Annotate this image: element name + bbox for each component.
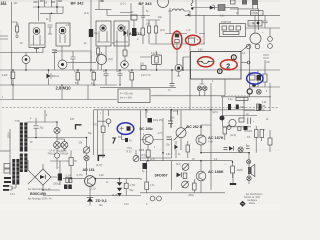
svg-text:(0,15): (0,15) [112, 195, 118, 197]
red ellipse R1 [172, 31, 182, 49]
small text boxes right [251, 11, 264, 16]
capacitor 10u dark [89, 29, 93, 37]
fuse chain [56, 122, 58, 127]
resistor cluster mid [148, 26, 151, 33]
transistor below box [200, 79, 205, 84]
svg-text:⊥: ⊥ [224, 163, 226, 166]
cap near x172 [170, 84, 175, 86]
connector pair circled R1 [175, 34, 179, 38]
fuse circles below [150, 196, 155, 201]
cap [52, 50, 57, 53]
IF can box 3 [96, 21, 111, 46]
svg-text:(0,3): (0,3) [84, 13, 89, 15]
mains plug [4, 177, 11, 179]
junction dots [12, 69, 14, 71]
resistor 1ohm [231, 166, 235, 173]
svg-text:4,7V: 4,7V [158, 133, 163, 135]
blue ellipse B2 [117, 123, 134, 135]
hatched rect [218, 5, 225, 11]
svg-text:6V: 6V [112, 43, 115, 45]
svg-text:ZD 9,1: ZD 9,1 [96, 199, 107, 203]
small cluster [229, 119, 236, 126]
svg-text:BA124: BA124 [52, 75, 60, 78]
svg-text:K 4,7k: K 4,7k [151, 53, 158, 55]
svg-text:24V: 24V [70, 119, 75, 121]
svg-text:↓: ↓ [190, 142, 191, 145]
transistor T1 [143, 134, 153, 144]
svg-text:20µ: 20µ [40, 128, 45, 130]
svg-text:+: + [197, 38, 199, 42]
comp under B2 [127, 126, 131, 131]
cap dark small [125, 138, 128, 142]
ground right [232, 174, 234, 184]
svg-text:F: F [219, 70, 221, 74]
small comps between [186, 145, 190, 152]
wire y137 [27, 137, 87, 139]
svg-text:LP M: LP M [50, 151, 55, 153]
badge D [220, 116, 225, 121]
svg-text:. . . . . . . . .: . . . . . . . . . [155, 94, 166, 96]
svg-text:bei Gleichstrom-: bei Gleichstrom- [246, 193, 263, 196]
bus y95.8 [151, 79, 225, 96]
svg-text:(15Ω): (15Ω) [188, 195, 194, 197]
svg-text:470µ: 470µ [173, 111, 179, 113]
extra can below box4 [121, 61, 129, 69]
svg-text:(6,2V): (6,2V) [96, 165, 102, 167]
annotation box [191, 52, 242, 80]
svg-text:(1,75): (1,75) [77, 175, 83, 177]
pot with arrow [83, 147, 89, 153]
svg-text:50µ: 50µ [130, 190, 135, 192]
svg-text:2,1Ω: 2,1Ω [91, 189, 96, 191]
transistor T3 [196, 135, 206, 145]
top-left cluster wires [33, 0, 64, 21]
svg-text:47n 125: 47n 125 [257, 106, 266, 108]
small circles right edge [268, 37, 273, 42]
resistor under T1 [146, 150, 150, 157]
zener ZD 9,1 [87, 196, 93, 198]
resistor right col [257, 104, 261, 111]
svg-text:12V: 12V [14, 3, 19, 5]
svg-text:(11,2): (11,2) [230, 135, 236, 137]
svg-text:0,4W: 0,4W [2, 75, 8, 77]
resistor on left bus [16, 26, 19, 32]
cap dark bars [236, 105, 239, 110]
diamond note [240, 201, 246, 207]
svg-text:(0,9): (0,9) [160, 30, 165, 32]
svg-text:1: 1 [233, 56, 235, 60]
bus y62 [54, 51, 96, 62]
diode AA112 [124, 30, 128, 36]
resistors below boxes [97, 48, 100, 54]
svg-text:1,7W: 1,7W [130, 185, 136, 187]
svg-text:LP B: LP B [62, 151, 67, 153]
svg-text:AC 188K: AC 188K [208, 170, 224, 174]
fuse circle [106, 119, 111, 124]
bus y15.4 [185, 14, 280, 16]
svg-text:7W0,6A: 7W0,6A [60, 153, 69, 156]
comp under blue ellipse B1 [257, 70, 259, 87]
svg-text:M: M [140, 179, 142, 181]
bus y152.7 [201, 152, 250, 154]
top edge comps right [231, 0, 236, 4]
fuse above AD161 [84, 155, 89, 160]
svg-text:BC 108c: BC 108c [140, 127, 153, 131]
svg-text:betrieb ca. 10%: betrieb ca. 10% [244, 196, 260, 199]
svg-text:7W0,1A: 7W0,1A [48, 153, 57, 156]
left small comps [4, 164, 10, 169]
diode chain right of AD161 [119, 179, 121, 182]
svg-text:0,1µ: 0,1µ [228, 99, 233, 101]
transistor circle top right [250, 33, 261, 44]
cap right of T1 [167, 137, 172, 140]
wire from box right [241, 62, 247, 64]
top right diode [193, 7, 218, 9]
resistor right in box [193, 183, 197, 190]
IF can box 2 [56, 23, 70, 46]
filler wires between IF boxes [48, 13, 53, 34]
wire below R1 [176, 48, 178, 64]
long vertical x249 [249, 44, 265, 97]
svg-text:Werte: Werte [249, 202, 256, 205]
comps cut at top edge [34, 1, 63, 2]
svg-text:1/10 7,7k: 1/10 7,7k [141, 75, 151, 77]
svg-text:(0,2): (0,2) [176, 164, 181, 166]
can 2 [58, 60, 67, 69]
cap right [245, 15, 280, 28]
wire y161 [50, 160, 69, 162]
small marks on y99 [13, 85, 88, 100]
svg-text:S 12: S 12 [10, 194, 15, 196]
pot lower [133, 156, 139, 162]
filler below IF box 4 [117, 40, 125, 70]
bottom-left bus [43, 195, 141, 197]
wires mid [150, 0, 205, 52]
svg-text:Bei Netzspg. 220V~ 4h: Bei Netzspg. 220V~ 4h [28, 198, 52, 201]
row right of AC187K [227, 126, 231, 130]
svg-text:R 20: R 20 [127, 152, 133, 154]
dark caps right of bus [228, 104, 231, 110]
switch inside box [197, 62, 214, 64]
svg-text:AD 161: AD 161 [83, 168, 95, 172]
resistor on bus left of can [141, 66, 146, 70]
svg-text:BF 343: BF 343 [139, 1, 153, 6]
svg-text:100µ: 100µ [240, 107, 246, 109]
svg-text:0,5/6: 0,5/6 [139, 150, 145, 152]
svg-text:141: 141 [1, 1, 7, 5]
wires [141, 110, 178, 158]
comps above speaker [224, 148, 228, 150]
coil horizontal [236, 97, 248, 100]
bridge rectifier B30C450 [35, 169, 51, 185]
dark elco [148, 118, 153, 123]
svg-text:2,8 M10: 2,8 M10 [56, 86, 72, 91]
svg-text:(1-1²): (1-1²) [120, 3, 126, 6]
transistor T2 with pencil arrow [176, 128, 186, 138]
wire y57 [140, 57, 183, 70]
resistor left mid [11, 72, 15, 79]
wire vertical x91 [90, 0, 92, 70]
svg-text:(2): (2) [96, 55, 99, 57]
red ellipse R3 [198, 57, 214, 67]
svg-text:niedrigere: niedrigere [247, 199, 258, 202]
solid bus below separator [94, 109, 256, 111]
svg-text:SFD007: SFD007 [155, 174, 168, 178]
svg-text:(0,6): (0,6) [108, 59, 113, 61]
left column of box [143, 163, 148, 169]
svg-text:(1,3V): (1,3V) [65, 175, 71, 177]
svg-text:bei k = 10%: bei k = 10% [120, 97, 132, 99]
bus y85 left [0, 84, 117, 86]
transistor T4 [196, 171, 206, 181]
wires right mid [244, 130, 252, 132]
svg-text:87MB: 87MB [252, 13, 258, 15]
svg-text:P = 750 mW: P = 750 mW [120, 93, 133, 95]
transistor can above row [97, 55, 107, 65]
wire left vertical bus [11, 2, 13, 85]
box with rects [220, 24, 246, 37]
coil arcs [172, 9, 184, 11]
left comps of AD161 [69, 158, 73, 166]
svg-text:(9): (9) [252, 23, 255, 25]
diode left row [47, 74, 51, 79]
cap 1500u [58, 174, 62, 181]
bus y52 [0, 47, 43, 53]
svg-text:S 10: S 10 [124, 204, 129, 206]
filler left of BF342 column [71, 51, 76, 70]
wires above boxes [95, 0, 150, 20]
svg-text:o. M: o. M [186, 30, 191, 32]
svg-text:Tr 50: Tr 50 [15, 120, 21, 123]
badge 1 [231, 55, 236, 60]
resistor row mid-left between buses [76, 73, 80, 81]
boxed resistor mid [152, 55, 162, 65]
top right squiggle resistor [191, 0, 193, 6]
dark dot right [252, 83, 256, 87]
resistor [101, 126, 105, 133]
badge F [218, 69, 223, 74]
svg-text:100µ 25V: 100µ 25V [153, 120, 163, 122]
dashed separator [2, 107, 278, 109]
svg-text:(12V): (12V) [212, 112, 218, 114]
extra resistor right column [268, 138, 272, 145]
red ellipse R4 [220, 60, 237, 70]
jumper circled R2 [188, 38, 196, 43]
trimmer 2 [182, 181, 189, 188]
svg-text:7734: 7734 [127, 148, 133, 150]
svg-text:(1,5): (1,5) [150, 159, 155, 161]
IF can box 1 [29, 23, 45, 48]
svg-text:(1,5): (1,5) [141, 155, 146, 157]
svg-text:AC 187K: AC 187K [208, 136, 224, 140]
rect between trimmers [183, 173, 187, 179]
IF can box 4 [114, 21, 129, 46]
svg-text:0,5A: 0,5A [198, 49, 203, 52]
can left [22, 56, 30, 64]
paper background [0, 0, 280, 210]
caps x143 [141, 5, 145, 28]
wire y87 right of mid [100, 52, 190, 110]
badge 5 [247, 89, 252, 94]
trimmer 1 [182, 164, 189, 171]
cap x170 upper [168, 121, 173, 124]
main bus y70 [0, 69, 280, 71]
svg-text:6,2K: 6,2K [99, 175, 104, 177]
svg-text:BC 262 D: BC 262 D [187, 125, 203, 129]
svg-text:50µ: 50µ [88, 133, 93, 135]
comps right column [263, 74, 267, 82]
vertical pair [94, 110, 98, 155]
svg-text:BF 342: BF 342 [71, 0, 85, 5]
wire left edge stubs [0, 36, 8, 39]
speaker [247, 160, 251, 164]
P box [118, 89, 150, 103]
svg-text:J: J [2, 97, 3, 99]
diagonal at box corner [241, 44, 250, 52]
svg-text:5V: 5V [75, 83, 78, 85]
cap 20u [34, 126, 39, 138]
can below R1 [175, 64, 182, 71]
svg-text:bei Netzbetrieb ca. 4h: bei Netzbetrieb ca. 4h [28, 188, 51, 191]
svg-text:4Ω/52: 4Ω/52 [237, 170, 244, 172]
blue ellipse B1 [247, 73, 263, 84]
svg-text:1500µ: 1500µ [53, 184, 60, 186]
transformer core dark bars [20, 123, 23, 152]
angle bracket [76, 125, 82, 130]
bus y99 [0, 99, 117, 101]
small comps x131 [131, 15, 137, 20]
transistor top edge [158, 0, 169, 8]
ground sym [34, 49, 39, 53]
wires transformer top [27, 110, 57, 125]
dark corner bracket [98, 156, 105, 162]
dark hook [112, 138, 115, 144]
red ellipse R2 [186, 35, 201, 45]
